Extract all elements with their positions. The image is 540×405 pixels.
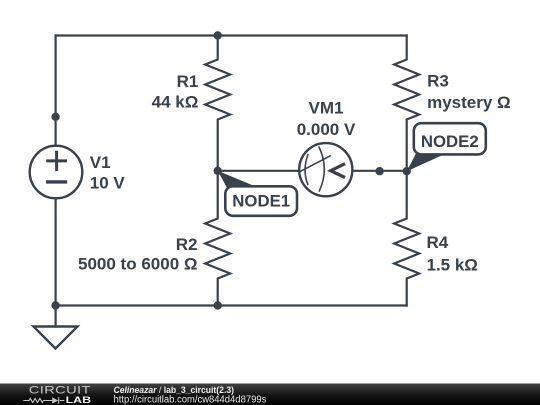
svg-text:0.000 V: 0.000 V — [297, 120, 356, 139]
svg-text:R4: R4 — [427, 233, 449, 252]
svg-text:Celineazar / lab_3_circuit(2.3: Celineazar / lab_3_circuit(2.3) — [114, 384, 235, 395]
svg-text:V1: V1 — [90, 153, 111, 172]
svg-text:44 kΩ: 44 kΩ — [152, 93, 199, 112]
svg-text:LAB: LAB — [66, 395, 92, 405]
svg-text:NODE2: NODE2 — [421, 132, 479, 151]
svg-text:5000 to 6000 Ω: 5000 to 6000 Ω — [78, 254, 197, 273]
svg-text:1.5 kΩ: 1.5 kΩ — [427, 255, 478, 274]
svg-text:http://circuitlab.com/cw844d4d: http://circuitlab.com/cw844d4d8799s — [114, 395, 267, 405]
svg-text:mystery Ω: mystery Ω — [427, 93, 511, 112]
svg-text:R2: R2 — [176, 235, 198, 254]
svg-text:VM1: VM1 — [309, 99, 344, 118]
svg-text:NODE1: NODE1 — [232, 191, 290, 210]
svg-text:10 V: 10 V — [90, 174, 126, 193]
svg-text:R3: R3 — [427, 72, 449, 91]
svg-text:R1: R1 — [177, 72, 199, 91]
